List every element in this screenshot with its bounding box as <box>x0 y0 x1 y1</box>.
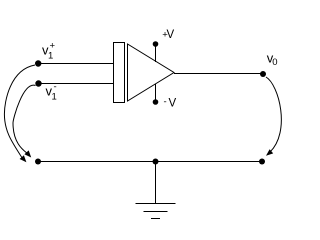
svg-text:0: 0 <box>272 57 277 68</box>
svg-text:V: V <box>169 97 177 109</box>
svg-text:V: V <box>167 29 175 41</box>
svg-text:1: 1 <box>48 51 53 62</box>
svg-text:+: + <box>50 41 56 52</box>
svg-text:-: - <box>164 97 167 108</box>
svg-text:1: 1 <box>52 92 57 103</box>
svg-text:-: - <box>54 82 57 93</box>
